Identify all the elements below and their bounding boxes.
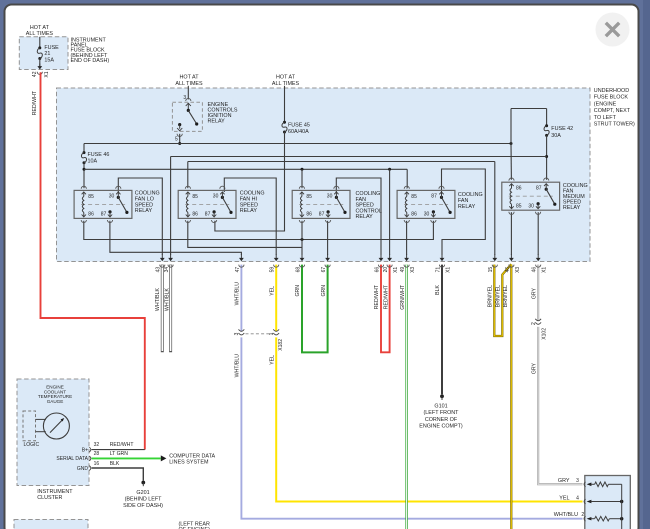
svg-text:HOT AT: HOT AT — [30, 25, 50, 31]
pin 47 connector — [240, 254, 242, 258]
wire RED/WHT pin66-pin20 loop — [381, 265, 390, 353]
wire relay3 pin87 to pin 67 — [327, 221, 329, 255]
cooling fan resistor block — [585, 476, 631, 529]
svg-text:49: 49 — [400, 267, 406, 273]
wire LT GRN serial data — [92, 457, 161, 459]
gauge needle — [50, 420, 62, 433]
wire bus L3 — [188, 161, 495, 163]
wire bus2 (coil feed bus) — [84, 168, 407, 170]
wire relay1 pin86 bus to relay4 pin30 — [84, 221, 434, 240]
svg-text:CLUSTER: CLUSTER — [37, 495, 62, 501]
wire RED/WHT fuse21 to cluster B+ — [41, 72, 145, 449]
svg-text:2: 2 — [531, 322, 537, 325]
svg-text:LOGIC: LOGIC — [24, 442, 40, 448]
wire ignition relay pin5 to bus L1 — [179, 134, 181, 144]
svg-text:87: 87 — [205, 212, 211, 218]
svg-text:WHT/BLU: WHT/BLU — [235, 354, 241, 378]
svg-text:RED/WHT: RED/WHT — [110, 442, 134, 448]
svg-text:X1: X1 — [542, 267, 548, 273]
wire relay2 pin30 loop to pin 59 — [224, 178, 276, 255]
svg-text:87: 87 — [536, 185, 542, 191]
svg-text:X1: X1 — [445, 267, 451, 273]
svg-text:85: 85 — [88, 194, 94, 200]
wire BLK to G201 — [92, 468, 144, 481]
wire relay1 pin30 loop to pin 43 — [118, 178, 162, 255]
svg-text:ALL TIMES: ALL TIMES — [26, 31, 54, 37]
svg-text:85: 85 — [192, 194, 198, 200]
pin 66 connector — [380, 254, 382, 258]
wire bus L2 — [171, 156, 547, 158]
underhood fuse block box — [57, 88, 591, 262]
svg-text:71: 71 — [435, 267, 441, 273]
svg-text:RELAY: RELAY — [208, 119, 226, 125]
svg-text:GRY: GRY — [558, 478, 570, 484]
svg-text:RED/WHT: RED/WHT — [383, 284, 389, 309]
svg-text:FUSE: FUSE — [44, 45, 59, 51]
svg-text:X1: X1 — [44, 71, 50, 77]
svg-text:(LEFT FRONT: (LEFT FRONT — [424, 410, 460, 416]
svg-text:30: 30 — [327, 194, 333, 200]
svg-text:86: 86 — [516, 186, 522, 192]
wire WHT/BLU pin47 to resistor pin2 — [241, 265, 582, 519]
svg-text:X102: X102 — [541, 328, 547, 340]
svg-text:UNDERHOOD: UNDERHOOD — [594, 88, 629, 94]
svg-text:BRN/YEL: BRN/YEL — [495, 285, 501, 307]
wire fuse42 down to relay5 pin87 — [546, 135, 548, 179]
wire GRN/WHT pin49 — [405, 265, 407, 529]
svg-text:RELAY: RELAY — [356, 214, 374, 220]
svg-text:3: 3 — [576, 478, 579, 484]
relay: cooling fan lo speed relay — [74, 190, 132, 218]
engine controls ignition relay — [172, 102, 202, 131]
ignition relay switch — [187, 103, 189, 110]
svg-text:RELAY: RELAY — [135, 208, 153, 214]
svg-text:YEL: YEL — [270, 355, 276, 365]
svg-text:FUSE 42: FUSE 42 — [551, 126, 573, 132]
ground G101 — [440, 394, 444, 398]
svg-text:30A: 30A — [551, 133, 561, 139]
svg-text:21: 21 — [44, 51, 50, 57]
svg-text:GRN: GRN — [321, 285, 327, 297]
svg-text:FUSE 45: FUSE 45 — [288, 122, 310, 128]
svg-text:GRY: GRY — [532, 287, 538, 299]
pin 34 connector — [170, 254, 172, 258]
svg-text:WHT/BLU: WHT/BLU — [554, 512, 578, 518]
fuse 21 15A — [38, 46, 41, 49]
svg-text:5: 5 — [175, 136, 178, 142]
svg-text:BLK: BLK — [435, 284, 441, 294]
svg-text:16: 16 — [94, 461, 100, 467]
pin 59 connector — [275, 254, 277, 258]
svg-text:WHT/BLK: WHT/BLK — [164, 287, 170, 311]
svg-text:X3: X3 — [515, 267, 521, 273]
svg-text:86: 86 — [88, 212, 94, 218]
svg-text:85: 85 — [411, 194, 417, 200]
svg-text:(BEHIND LEFT: (BEHIND LEFT — [125, 496, 163, 502]
svg-text:30: 30 — [109, 194, 115, 200]
wire WHT/BLK pin34 — [169, 265, 172, 353]
wire drop to fuse 45 — [284, 86, 286, 122]
wire L1 drop to relay5 coil — [510, 144, 512, 180]
svg-text:ALL TIMES: ALL TIMES — [272, 81, 300, 87]
wire GRN pin68-pin67 loop — [302, 265, 328, 353]
svg-text:ENGINE COMPT): ENGINE COMPT) — [419, 424, 463, 430]
svg-text:LINES SYSTEM: LINES SYSTEM — [169, 460, 209, 466]
pin 68 connector — [301, 254, 303, 258]
wire out of fuse 21 — [39, 59, 41, 67]
svg-text:WHT/BLK: WHT/BLK — [155, 287, 161, 311]
pin 71 connector — [441, 254, 443, 258]
svg-text:RELAY: RELAY — [563, 205, 581, 211]
bottom module box (cut off) — [14, 520, 88, 529]
wire fuse46 to relay1 coil — [83, 163, 85, 188]
svg-text:YEL: YEL — [559, 495, 569, 501]
svg-text:1: 1 — [269, 332, 275, 335]
svg-text:42: 42 — [32, 71, 38, 77]
wire YEL pin59 to resistor pin4 — [276, 265, 582, 502]
svg-text:HOT AT: HOT AT — [180, 74, 200, 80]
svg-text:86: 86 — [411, 212, 417, 218]
wire bus2 end drop to relay4 coil — [406, 169, 408, 188]
svg-text:34: 34 — [164, 267, 170, 273]
wire relay5 pin85 to pin 46/X3 — [510, 212, 512, 255]
wire BLK pin71 to G101 — [441, 265, 443, 395]
svg-text:G201: G201 — [136, 490, 149, 496]
pin 46 connector — [510, 254, 512, 258]
svg-text:STRUT TOWER): STRUT TOWER) — [594, 122, 635, 128]
logic box — [23, 411, 36, 441]
wire BRN/YEL pin15-pin46 loop — [494, 264, 511, 336]
wire L3 drop to relay2 coil — [187, 162, 189, 189]
svg-text:SIDE OF DASH): SIDE OF DASH) — [123, 503, 163, 509]
svg-text:4: 4 — [576, 495, 579, 501]
pin 43 connector — [161, 254, 163, 258]
svg-text:BRN/YEL: BRN/YEL — [488, 285, 494, 307]
svg-text:GRN: GRN — [295, 285, 301, 297]
wire relay5 pin30 to pin 46/X1 — [537, 212, 539, 255]
close button — [596, 13, 630, 47]
svg-text:X3: X3 — [410, 267, 416, 273]
svg-text:GRN/WHT: GRN/WHT — [400, 284, 406, 310]
svg-text:END OF DASH): END OF DASH) — [71, 58, 110, 64]
svg-text:2: 2 — [581, 512, 584, 518]
wire relay3 pin86 down to pin 68 — [301, 221, 303, 255]
wire jog up to fuse 42 — [510, 142, 513, 145]
resistor internal bus — [621, 484, 623, 529]
svg-text:G101: G101 — [434, 404, 447, 410]
svg-text:TO LEFT: TO LEFT — [594, 115, 617, 121]
ground G201 — [141, 481, 145, 485]
svg-text:66: 66 — [374, 267, 380, 273]
relay: cooling fan medium speed relay — [502, 182, 560, 210]
wire into fuse 21 — [39, 37, 41, 48]
svg-text:GRY: GRY — [532, 362, 538, 374]
wire bus L1 — [84, 143, 511, 145]
svg-text:86: 86 — [192, 212, 198, 218]
gauge symbol — [43, 413, 69, 439]
wire drop to ignition relay — [187, 86, 189, 100]
svg-text:COMPT, NEXT: COMPT, NEXT — [594, 108, 631, 114]
wire relay4 pin87 loop to pin 71 — [442, 169, 486, 255]
relay: cooling fan speed control relay — [292, 190, 350, 218]
relay: cooling fan hi speed relay — [178, 190, 236, 218]
wire BRN/YEL pin46 down — [510, 265, 512, 529]
wire relay3 pin30 loop to pin 66 — [336, 178, 381, 255]
svg-text:RED/WHT: RED/WHT — [32, 90, 38, 115]
instrument cluster box — [17, 379, 89, 486]
svg-text:46: 46 — [505, 267, 511, 273]
svg-text:FUSE 46: FUSE 46 — [88, 152, 110, 158]
svg-text:47: 47 — [235, 267, 241, 273]
svg-text:30: 30 — [424, 212, 430, 218]
svg-text:COMPUTER DATA: COMPUTER DATA — [169, 454, 215, 460]
svg-text:BLK: BLK — [110, 461, 120, 467]
pin 15 connector — [494, 254, 496, 258]
svg-text:67: 67 — [321, 267, 327, 273]
svg-text:RED/WHT: RED/WHT — [374, 284, 380, 309]
svg-text:86: 86 — [306, 212, 312, 218]
svg-text:32: 32 — [94, 442, 100, 448]
svg-text:3: 3 — [234, 332, 240, 335]
svg-text:87: 87 — [431, 194, 437, 200]
svg-text:87: 87 — [101, 212, 107, 218]
svg-text:WHT/BLU: WHT/BLU — [235, 282, 241, 306]
svg-text:(ENGINE: (ENGINE — [594, 101, 617, 107]
svg-text:RELAY: RELAY — [240, 208, 258, 214]
wire relay2 pin86 to pin68 line — [188, 221, 302, 248]
svg-text:15: 15 — [488, 267, 494, 273]
inline connector X102 — [537, 320, 540, 326]
svg-text:CORNER OF: CORNER OF — [425, 417, 458, 423]
wire bus2 drop to pin 20 — [389, 169, 391, 255]
svg-text:GND: GND — [77, 466, 89, 472]
svg-text:30: 30 — [528, 204, 534, 210]
svg-text:28: 28 — [94, 451, 100, 457]
wire fuse45 to relay2 pin87 — [215, 132, 285, 231]
svg-text:X1: X1 — [393, 267, 399, 273]
instrument panel fuse block box — [19, 37, 68, 70]
inline connector X182 — [240, 331, 242, 337]
wire WHT/BLK pin43 — [161, 265, 164, 353]
pin 49 connector — [406, 254, 408, 258]
relay: cooling fan relay — [397, 190, 455, 218]
wire L2 drop to pin 34 — [170, 157, 172, 256]
fuse 42 30A — [546, 109, 548, 126]
fuse 46 10A — [83, 151, 86, 154]
svg-text:YEL: YEL — [270, 286, 276, 296]
svg-text:LT GRN: LT GRN — [110, 451, 129, 457]
svg-text:B+: B+ — [82, 447, 88, 453]
svg-text:X182: X182 — [278, 339, 284, 351]
svg-text:68: 68 — [295, 267, 301, 273]
pin 67 connector — [327, 254, 329, 258]
svg-text:85: 85 — [306, 194, 312, 200]
wire L3 drop to pin 15 — [494, 162, 496, 256]
svg-text:30: 30 — [213, 194, 219, 200]
svg-text:46: 46 — [532, 267, 538, 273]
svg-text:FUSE BLOCK: FUSE BLOCK — [594, 95, 629, 101]
svg-text:10A: 10A — [88, 159, 98, 165]
wire relay4 pin86 to pin 49 — [406, 221, 408, 255]
wire bus2 drop to relay3 coil — [301, 169, 303, 188]
pin 46 connector — [537, 254, 539, 258]
svg-text:87: 87 — [319, 212, 325, 218]
wire GRY pin46 to resistor pin3 — [538, 265, 582, 485]
svg-text:43: 43 — [156, 267, 162, 273]
svg-text:GAUGE: GAUGE — [47, 399, 64, 404]
svg-text:59: 59 — [270, 267, 276, 273]
svg-text:SERIAL DATA: SERIAL DATA — [56, 456, 88, 462]
pin 20 connector — [389, 254, 391, 258]
svg-text:15A: 15A — [44, 57, 54, 63]
svg-text:60A/40A: 60A/40A — [288, 129, 309, 135]
fuse 45 60A/40A — [283, 121, 286, 124]
svg-text:20: 20 — [383, 267, 389, 273]
svg-text:ALL TIMES: ALL TIMES — [175, 81, 203, 87]
svg-text:HOT AT: HOT AT — [276, 74, 296, 80]
wire relay1 pin87 to pin 47 — [110, 221, 242, 255]
svg-text:BRN/YEL: BRN/YEL — [503, 285, 509, 307]
svg-text:RELAY: RELAY — [458, 204, 476, 210]
svg-text:85: 85 — [516, 204, 522, 210]
